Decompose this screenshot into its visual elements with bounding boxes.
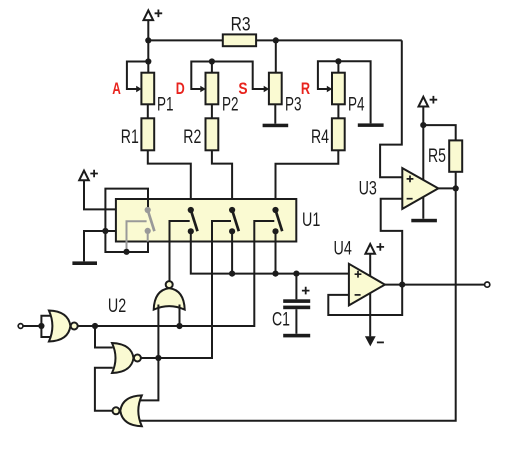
svg-text:P1: P1	[157, 93, 174, 115]
wire top rail	[148, 39, 401, 41]
negative supply arrow U4	[365, 336, 384, 346]
capacitor C1 lead bottom	[295, 309, 297, 334]
node P1 top	[145, 58, 151, 64]
svg-text:R: R	[301, 79, 310, 98]
wire U2c lower input from U2d output	[95, 368, 113, 411]
gate U2a (NOR as inverter)	[49, 311, 78, 342]
op-amp U3	[402, 168, 438, 209]
svg-text:U3: U3	[359, 178, 377, 200]
gate U2c (NOR)	[112, 343, 141, 373]
wire U4 feedback	[328, 285, 402, 315]
wire input terminal to gate U2a	[23, 325, 41, 327]
wire switch4 output	[275, 231, 277, 273]
potentiometer P3	[269, 73, 282, 105]
wire R2 to switch3 top	[212, 150, 232, 210]
node junction rail-P1	[145, 37, 151, 43]
wire U2a output down to U2c upper input	[95, 326, 113, 348]
wire U2c output to U2d upper input	[139, 358, 158, 400]
ground P3	[263, 124, 289, 128]
node U3 output	[453, 185, 459, 191]
node gate U2a input	[38, 323, 44, 329]
wiper arrow P2	[200, 86, 205, 93]
node U2a output to U2c input	[92, 323, 98, 329]
wire U4 output	[385, 284, 485, 286]
wire R5 to U3 output	[455, 172, 457, 189]
svg-text:R3: R3	[231, 13, 251, 35]
svg-text:P4: P4	[348, 93, 365, 115]
wiper arrow P3	[264, 86, 269, 93]
ground P4	[358, 123, 384, 127]
wire reference node to U3 plus input	[380, 40, 402, 177]
node U2b right input	[176, 323, 182, 329]
power symbol +V left	[79, 170, 98, 181]
svg-text:P2: P2	[222, 93, 239, 115]
svg-text:R5: R5	[428, 145, 446, 167]
svg-text:P3: P3	[285, 93, 302, 115]
wiper arrow P1	[136, 86, 141, 93]
node ground junction	[102, 228, 108, 234]
wire P2 wiper loop	[191, 62, 212, 90]
U3 supply rail vertical	[422, 107, 424, 219]
wire rail to P3 top	[275, 40, 277, 72]
wire R4 to switch4 top	[276, 150, 339, 210]
switch 2 of U1	[188, 207, 198, 235]
node switch4-envelope	[272, 271, 278, 277]
svg-text:U1: U1	[302, 209, 320, 231]
wire P4 to R4	[337, 104, 339, 118]
wire P4 top to ground right	[338, 61, 370, 123]
wire U3 minus input to U4 output	[381, 199, 403, 285]
node P4 top	[335, 58, 341, 64]
wiper arrow P4	[327, 86, 332, 93]
wire P2 to R2	[211, 104, 213, 118]
potentiometer P4	[332, 73, 345, 105]
ground C1	[283, 334, 310, 338]
node switch3-envelope	[229, 271, 235, 277]
node C1-envelope	[293, 271, 299, 277]
input terminal	[18, 324, 23, 329]
svg-text:S: S	[238, 79, 247, 98]
wire ground stub to U1 ground pin	[84, 231, 116, 261]
power symbol +V U3	[419, 96, 438, 107]
wire P1 to R1	[147, 104, 149, 118]
svg-text:C1: C1	[272, 309, 290, 331]
wire +V to U1 supply pin	[84, 180, 116, 209]
C1 polarity plus	[302, 287, 310, 295]
ground U3	[411, 219, 437, 223]
resistor R5	[449, 140, 462, 171]
output terminal	[485, 282, 490, 287]
wire P4 wiper loop	[318, 61, 339, 89]
gate U2a input bridge	[41, 316, 50, 337]
wire P1 wiper loop	[127, 62, 148, 90]
resistor R1	[141, 118, 154, 150]
switch1 control wire (gray)	[127, 221, 147, 252]
analog switch IC U1	[116, 199, 296, 242]
op-amp U4	[349, 264, 385, 306]
wire S from P2 top to P3 wiper	[212, 62, 264, 90]
switch4 control wire to gate U2a output line	[77, 221, 274, 326]
potentiometer P2	[206, 73, 219, 105]
U4 supply rail vertical	[369, 254, 371, 337]
node junction rail-P3	[273, 37, 279, 43]
wire P3 to ground	[274, 104, 276, 123]
capacitor C1 lead top	[295, 274, 297, 300]
gate U2b (NOR pointing up)	[154, 281, 185, 310]
gate U2d (NOR pointing left)	[113, 395, 142, 426]
wire switch1 loop (top terminal around left side to bottom terminal)	[105, 189, 148, 252]
resistor R3	[223, 34, 256, 46]
node P2 top	[209, 58, 215, 64]
wire U2b left input from U2c output	[157, 305, 159, 359]
switch 3 of U1	[229, 207, 239, 235]
svg-text:U4: U4	[334, 237, 352, 259]
wire switch2 output to envelope node	[191, 231, 349, 273]
power symbol +V top	[144, 10, 163, 21]
switch2 control wire from gate U2b	[170, 221, 190, 281]
node switch1 control junction	[123, 249, 129, 255]
resistor R4	[332, 118, 345, 150]
resistor R2	[206, 118, 219, 150]
svg-text:R2: R2	[183, 126, 201, 148]
power symbol +V U4	[365, 243, 384, 254]
switch 4 of U1	[272, 207, 282, 235]
svg-text:D: D	[176, 79, 185, 98]
wire +V to R5	[423, 125, 455, 140]
potentiometer P1	[141, 73, 154, 105]
switch 1 of U1 (gray)	[145, 207, 155, 242]
wire switch3 output	[231, 231, 233, 273]
svg-text:R1: R1	[121, 126, 139, 148]
wire U2b right input	[179, 305, 181, 327]
node U3 supply R5	[420, 122, 426, 128]
svg-text:A: A	[112, 79, 121, 98]
wire U2d lower input from U3 output	[140, 188, 456, 420]
wire P2 top stub	[211, 62, 213, 73]
node U4 output	[399, 282, 405, 288]
ground U1	[72, 261, 97, 265]
wire U3 output	[438, 187, 455, 189]
svg-text:R4: R4	[311, 126, 329, 148]
switch3 control wire to gate U2c output	[141, 221, 231, 358]
wire +V to rail and P1 top	[147, 20, 149, 73]
capacitor C1 plates	[283, 299, 310, 309]
node U2c output	[155, 355, 161, 361]
wire R1 to switch2 top	[148, 150, 191, 210]
svg-text:U2: U2	[108, 295, 126, 317]
wire P4 top stub	[337, 61, 339, 72]
